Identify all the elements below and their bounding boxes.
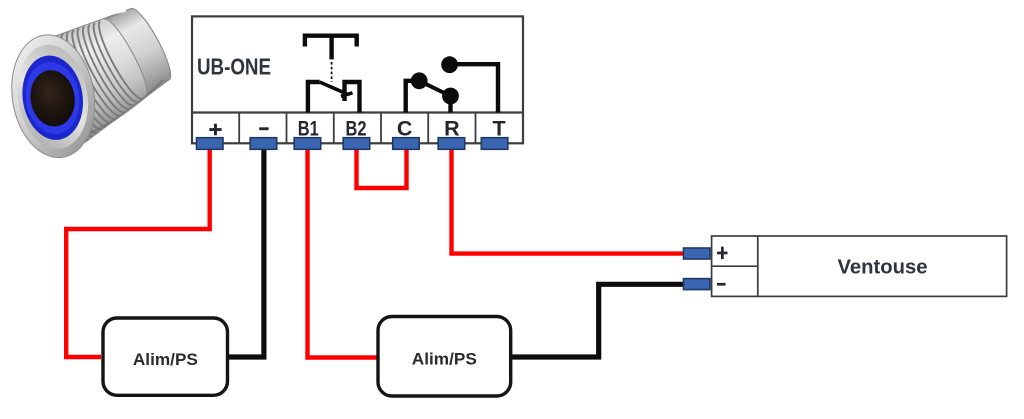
svg-text:Alim/PS: Alim/PS bbox=[133, 351, 198, 369]
svg-text:Alim/PS: Alim/PS bbox=[412, 351, 477, 369]
svg-text:UB-ONE: UB-ONE bbox=[197, 53, 271, 79]
svg-text:Ventouse: Ventouse bbox=[838, 255, 928, 278]
